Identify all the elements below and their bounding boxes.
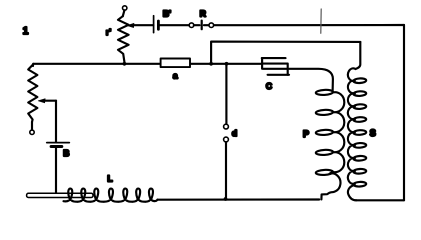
svg-text:B': B' xyxy=(163,9,171,19)
wire: right edge vertical xyxy=(403,25,405,200)
svg-text:L: L xyxy=(107,174,112,184)
wire: bottom right rail to S coil xyxy=(356,199,404,201)
wire: corner at top of left potentiometer xyxy=(32,64,34,66)
svg-text:P: P xyxy=(303,129,309,139)
svg-text:B: B xyxy=(63,148,69,158)
wire: faint crossing tick on top wire xyxy=(320,9,322,33)
battery B xyxy=(47,143,70,194)
wire: bottom rail from coil L to primary P xyxy=(158,198,320,200)
primary coil P xyxy=(289,69,344,200)
secondary coil S xyxy=(348,42,376,200)
potentiometer (left, unlabeled) xyxy=(28,65,37,135)
spark gap d xyxy=(224,124,238,199)
svg-text:r': r' xyxy=(106,27,111,37)
wire: wiper down to battery B xyxy=(55,101,57,142)
wire: left horizontal of main middle wire xyxy=(33,63,160,65)
node: junction of spark gap branch xyxy=(225,62,229,66)
wire: spark gap branch down from middle wire xyxy=(225,64,227,124)
node: junction of inner loop wire xyxy=(209,62,213,66)
capacitor C xyxy=(262,58,289,91)
svg-text:C: C xyxy=(266,81,272,91)
coil L xyxy=(64,174,158,202)
resistor a xyxy=(161,59,190,81)
svg-text:1: 1 xyxy=(23,26,29,37)
wire: top main wire from plug R to right edge xyxy=(214,24,405,26)
wiper arrow of left potentiometer xyxy=(38,99,56,103)
svg-text:d: d xyxy=(232,128,237,138)
rheostat r' xyxy=(106,6,129,62)
wire: middle wire from resistor a to capacitor C xyxy=(190,63,262,65)
svg-text:S: S xyxy=(370,128,376,138)
slider bar (core of coil L) xyxy=(27,193,93,197)
wiper arrow of rheostat r' to battery B' xyxy=(127,23,153,27)
svg-text:R: R xyxy=(200,9,206,19)
svg-text:a: a xyxy=(173,71,178,81)
wire: inner loop wire from node up and across to S xyxy=(211,42,360,64)
plug key R xyxy=(189,9,213,30)
node: junction of r' with middle wire xyxy=(123,62,127,66)
battery B' xyxy=(154,9,190,33)
node: junction of spark gap branch with bottom rail xyxy=(224,197,228,201)
